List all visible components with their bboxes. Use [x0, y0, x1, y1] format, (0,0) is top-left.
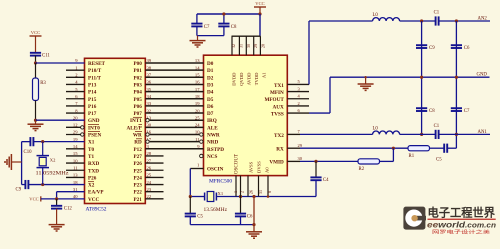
svg-text:D6: D6 [207, 104, 214, 110]
inductor L0 (AN1 branch) [373, 131, 400, 134]
svg-text:T0: T0 [88, 147, 94, 153]
svg-text:T1: T1 [88, 154, 94, 160]
eeworld logo mark [403, 207, 426, 230]
svg-text:MFIN: MFIN [270, 90, 284, 96]
wire C1 to AN1 [438, 133, 490, 135]
capacitor C9 (series in X2 wire) [24, 180, 26, 189]
svg-text:D2: D2 [207, 75, 214, 81]
svg-text:P10/T: P10/T [88, 68, 102, 74]
node OSCOUT junction [239, 195, 242, 198]
wire reset node to R3 [35, 63, 37, 78]
node C9 column top [420, 19, 423, 22]
svg-text:2: 2 [240, 191, 245, 193]
svg-text:D7: D7 [207, 111, 214, 117]
wire AUX stub [287, 105, 309, 107]
U2 NRD bubble [200, 140, 203, 143]
svg-text:NCS: NCS [207, 154, 217, 160]
wire R2 riser to RX node [380, 148, 394, 161]
svg-text:C9: C9 [16, 188, 22, 193]
svg-text:MFRC500: MFRC500 [209, 179, 232, 185]
capacitor C5 (oscillator left) [185, 197, 204, 225]
svg-text:PSEN: PSEN [88, 133, 102, 139]
svg-text:22: 22 [147, 194, 152, 199]
svg-text:P03: P03 [133, 82, 142, 88]
node C4 junction [314, 160, 317, 163]
svg-text:AUX: AUX [273, 104, 284, 110]
wire ground drop [253, 197, 255, 232]
svg-text:X1: X1 [218, 191, 224, 196]
svg-text:QVDD: QVDD [239, 72, 244, 86]
wire C11 to reset node [35, 56, 37, 63]
wire oscillator rail [190, 196, 316, 198]
node C8 top junction [222, 12, 225, 15]
svg-text:A1: A1 [262, 72, 267, 78]
wire VCC node to C12 [56, 199, 58, 206]
svg-text:L0: L0 [373, 126, 379, 131]
svg-text:P27: P27 [133, 154, 142, 160]
crystal X2 11.0592MHz [37, 142, 57, 185]
svg-text:P24: P24 [133, 175, 142, 181]
wire C5 to AN1 node [447, 147, 456, 149]
svg-text:AVDD: AVDD [247, 72, 252, 85]
svg-text:RESET: RESET [88, 61, 106, 67]
svg-text:P15: P15 [88, 97, 97, 103]
svg-text:D0: D0 [207, 61, 214, 67]
svg-text:C1: C1 [434, 11, 440, 16]
wire C1 to AN2 [438, 20, 490, 22]
node C7 column at AN1 rail [455, 133, 458, 136]
svg-text:VMID: VMID [269, 159, 284, 165]
node C8 column at AN1 rail [420, 133, 423, 136]
node C6 column at GND rail [455, 76, 458, 79]
capacitor C9 (shunt top) [416, 44, 427, 46]
node VCC/C12 junction [55, 197, 58, 200]
svg-text:C4: C4 [323, 178, 329, 183]
wire C12 to ground [56, 209, 58, 225]
svg-text:P06: P06 [133, 104, 142, 110]
capacitor C12 [51, 205, 62, 207]
svg-text:26: 26 [249, 190, 254, 194]
svg-text:R1: R1 [409, 154, 415, 159]
svg-text:C10: C10 [24, 150, 33, 155]
U1 right pin stubs and pin numbers [145, 58, 163, 199]
svg-text:IRQ: IRQ [207, 118, 217, 124]
svg-text:P22: P22 [133, 190, 142, 196]
svg-text:28: 28 [147, 151, 152, 156]
svg-text:DVSS: DVSS [257, 161, 262, 173]
svg-text:C12: C12 [64, 207, 73, 212]
wire U1 EA/VP to VCC node [57, 192, 85, 199]
wire VCC to U1 VCC pin [41, 198, 85, 200]
svg-text:32: 32 [231, 44, 236, 48]
svg-text:RX: RX [276, 147, 284, 153]
svg-text:P17: P17 [88, 111, 97, 117]
wire oscillator bottom ground rail [190, 224, 254, 226]
wire VCC distribution rail (top) [197, 14, 260, 24]
svg-text:8: 8 [267, 191, 272, 193]
svg-text:31: 31 [239, 44, 244, 48]
svg-text:14: 14 [73, 144, 78, 149]
svg-text:15: 15 [73, 151, 78, 156]
svg-text:C9: C9 [429, 46, 435, 51]
wire OSCIN connection [190, 169, 203, 197]
svg-text:GND: GND [477, 73, 488, 78]
svg-text:11.0592MHz: 11.0592MHz [36, 171, 70, 176]
U1 left pin stubs and pin numbers [66, 58, 85, 199]
svg-text:P26: P26 [133, 161, 142, 167]
wire TX1 stub [287, 83, 309, 85]
ground (crystal, pointing left) [11, 161, 21, 163]
ground (below R3) [35, 120, 37, 124]
resistor R2 [358, 159, 380, 164]
capacitor C1 (AN2 series) [435, 16, 437, 25]
svg-text:12: 12 [73, 123, 78, 128]
node bottom pin junction [267, 195, 270, 198]
svg-text:P00: P00 [133, 61, 142, 67]
svg-text:MFOUT: MFOUT [264, 97, 284, 103]
svg-text:C5: C5 [197, 214, 203, 219]
svg-text:RXD: RXD [88, 161, 99, 167]
svg-text:X2: X2 [50, 158, 56, 163]
svg-text:C6: C6 [247, 214, 253, 219]
svg-text:P26: P26 [88, 175, 97, 181]
ground (top middle) [190, 41, 206, 47]
wire GND rail [330, 76, 490, 78]
svg-text:P01: P01 [133, 68, 142, 74]
node ground drop junction [252, 195, 255, 198]
resistor R3 [33, 78, 39, 101]
svg-text:C11: C11 [42, 54, 50, 59]
svg-text:P25: P25 [133, 168, 142, 174]
wire C9 to left rail [22, 184, 26, 186]
wire RX row [287, 147, 408, 149]
node VCC rail junction [258, 12, 261, 15]
svg-text:P16: P16 [88, 104, 97, 110]
U2 left pin numbers [195, 58, 200, 149]
svg-text:D3: D3 [207, 82, 214, 88]
svg-text:X1: X1 [88, 140, 95, 146]
svg-text:10: 10 [73, 158, 78, 163]
power symbol VCC (bottom left) [29, 196, 41, 201]
U1 RD bubble [146, 140, 149, 143]
svg-text:X2: X2 [88, 183, 95, 189]
svg-text:C7: C7 [204, 25, 210, 30]
svg-text:P05: P05 [133, 97, 142, 103]
svg-text:C5: C5 [436, 158, 442, 163]
MCU U1 AT89C52 body [85, 58, 146, 203]
wire cap bottoms to ground [197, 26, 224, 40]
svg-text:24: 24 [147, 180, 152, 185]
capacitor C7 (shunt bottom right) [451, 107, 462, 109]
svg-text:C8: C8 [231, 25, 237, 30]
node oscillator left junction [189, 195, 192, 198]
svg-text:OSCIN: OSCIN [207, 167, 224, 173]
capacitor C7 [191, 23, 202, 25]
svg-text:VCC: VCC [29, 197, 38, 202]
capacitor C5 (RX series) [443, 144, 445, 153]
svg-text:R3: R3 [40, 81, 46, 86]
wire ground node to U1 GND pin [36, 119, 85, 121]
svg-text:网罗电子设计之美: 网罗电子设计之美 [432, 228, 491, 235]
svg-text:RD: RD [134, 140, 142, 146]
U2 NWR bubble [200, 133, 203, 136]
active-low overlines U1 [88, 117, 142, 181]
svg-text:C1: C1 [434, 124, 440, 129]
svg-text:ALE: ALE [207, 125, 218, 131]
svg-text:AN2: AN2 [478, 17, 488, 22]
wire R1 to C5 [430, 147, 445, 149]
svg-text:TVSS: TVSS [271, 111, 284, 117]
svg-text:13.56MHz: 13.56MHz [204, 208, 228, 213]
wire TX1 riser to top rail [309, 21, 373, 84]
svg-text:23: 23 [147, 187, 152, 192]
capacitor C10 (series in X1 wire) [29, 137, 31, 146]
wire VMID row [287, 160, 358, 162]
wire L0 to C1 [400, 20, 436, 22]
svg-text:RSTPD: RSTPD [207, 147, 224, 153]
svg-text:TX2: TX2 [274, 133, 284, 139]
node X2-crystal junction [41, 183, 44, 186]
wire L0 to C1 (AN1) [400, 133, 436, 135]
wire U1 X2 row to crystal [29, 184, 85, 186]
svg-text:VCC: VCC [88, 197, 99, 203]
svg-text:P13: P13 [88, 82, 97, 88]
svg-text:13: 13 [73, 173, 78, 178]
node ground junction [34, 119, 37, 122]
svg-text:L0: L0 [373, 13, 379, 18]
svg-text:2: 2 [298, 101, 300, 106]
U2 right pin numbers [298, 79, 303, 161]
svg-text:D1: D1 [207, 68, 214, 74]
svg-text:P23: P23 [133, 183, 142, 189]
eeworld logo red rule [428, 219, 496, 220]
capacitor C8 [218, 23, 229, 25]
wire left ground rail for crystal caps [21, 142, 23, 185]
crystal X1 13.56MHz [205, 191, 224, 201]
svg-text:1: 1 [233, 191, 238, 193]
data and control bus wires P0/D0-D7 IRQ ALE NWR NRD NSTPD [145, 63, 203, 149]
svg-text:GND: GND [88, 118, 100, 124]
svg-text:AVSS: AVSS [249, 161, 254, 173]
svg-text:P11/T: P11/T [88, 75, 102, 81]
svg-text:DVDD: DVDD [232, 72, 237, 86]
ground (on GND rail) [358, 76, 374, 90]
node reset junction [34, 61, 37, 64]
wire C9/C8 column [421, 21, 423, 134]
resistor R1 [408, 146, 430, 151]
svg-text:OSCOUT: OSCOUT [235, 154, 240, 174]
capacitor C8 (shunt bottom) [416, 107, 427, 109]
svg-text:WR: WR [133, 133, 142, 139]
svg-text:11: 11 [73, 165, 78, 170]
wire C6/C7 column [455, 21, 457, 148]
svg-text:P04: P04 [133, 90, 142, 96]
svg-text:C7: C7 [464, 109, 470, 114]
wire VCC to C11 [35, 36, 37, 53]
svg-text:28: 28 [261, 44, 266, 48]
U1 PSEN bubble [81, 133, 84, 136]
svg-text:25: 25 [147, 173, 152, 178]
inductor L0 (AN2 branch) [373, 18, 400, 21]
wire TX2 to AN1 rail [287, 133, 372, 135]
svg-text:INT1: INT1 [130, 118, 142, 124]
svg-text:EA/VP: EA/VP [88, 190, 104, 196]
svg-text:C6: C6 [464, 46, 470, 51]
svg-text:C8: C8 [429, 109, 435, 114]
U1 INT1 bubble [146, 119, 149, 122]
svg-text:电子工程世界: 电子工程世界 [428, 206, 496, 220]
capacitor C4 [310, 161, 329, 196]
svg-text:P14: P14 [88, 90, 97, 96]
ground (below U2) [246, 232, 262, 238]
U2 bottom pin stubs with pin numbers [233, 176, 272, 197]
ground (below C12) [49, 225, 65, 231]
svg-text:R2: R2 [359, 167, 365, 172]
node bottom rail junction [252, 223, 255, 226]
svg-text:27: 27 [147, 158, 152, 163]
svg-text:AN1: AN1 [478, 130, 488, 135]
U2 top pin stubs with pin numbers [231, 36, 266, 55]
capacitor C6 (oscillator right) [235, 197, 253, 225]
svg-text:TX1: TX1 [274, 83, 284, 89]
svg-text:D4: D4 [207, 90, 214, 96]
wire reset node to U1 RESET [36, 62, 85, 64]
svg-text:VCC: VCC [31, 30, 40, 35]
svg-text:D5: D5 [207, 97, 214, 103]
svg-text:NRD: NRD [207, 140, 218, 146]
svg-text:VCC: VCC [255, 1, 264, 6]
node X1-crystal junction [41, 140, 44, 143]
svg-text:AT89C52: AT89C52 [86, 207, 107, 213]
svg-text:TXD: TXD [88, 168, 99, 174]
U1 WR bubble [146, 133, 149, 136]
svg-text:P07: P07 [133, 111, 142, 117]
svg-text:30: 30 [246, 44, 251, 48]
svg-text:NWR: NWR [207, 133, 220, 139]
svg-text:P02: P02 [133, 75, 142, 81]
svg-text:P21: P21 [133, 197, 142, 203]
capacitor C1 (AN1 series) [435, 130, 437, 139]
node C6 column top [455, 19, 458, 22]
svg-text:A0: A0 [265, 167, 270, 173]
svg-text:INT0: INT0 [88, 125, 100, 131]
wire MFOUT stub [287, 98, 309, 100]
wire U1 X1 row to crystal [34, 141, 85, 143]
wire VCC feed down to U2 top pins [232, 7, 261, 36]
capacitor C6 (shunt top right) [451, 44, 462, 46]
svg-text:31: 31 [258, 190, 263, 194]
svg-text:TVDD: TVDD [254, 72, 259, 85]
U2 NCS bubble [200, 154, 203, 157]
reader IC U2 MFRC500 body [204, 55, 288, 175]
svg-text:26: 26 [147, 165, 152, 170]
wire MFIN stub [287, 91, 309, 93]
svg-text:ALE/P: ALE/P [127, 125, 143, 131]
svg-text:29: 29 [73, 130, 78, 135]
capacitor C11 [30, 52, 41, 54]
wire R3 to ground node [35, 101, 37, 121]
node C9 column at GND rail [420, 76, 423, 79]
wire C10 to left rail [22, 141, 31, 143]
eeworld logo domain text [427, 219, 496, 229]
svg-text:29: 29 [253, 44, 258, 48]
svg-text:P12: P12 [133, 147, 142, 153]
wire TVSS to ground rail [287, 77, 330, 113]
U1 INT0 bubble [81, 126, 84, 129]
node RX/R2 junction [392, 147, 395, 150]
